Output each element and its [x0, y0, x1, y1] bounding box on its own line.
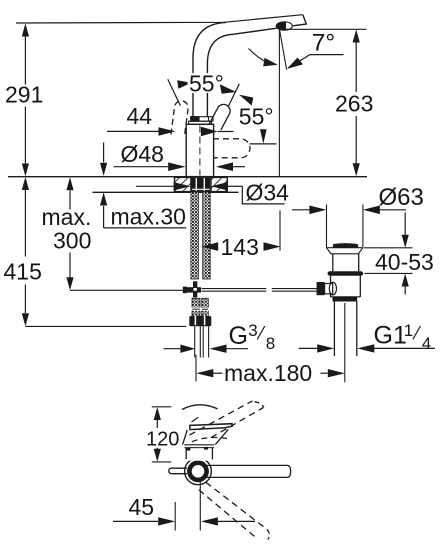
svg-text:40-53: 40-53: [375, 249, 434, 275]
svg-text:44: 44: [127, 103, 153, 129]
svg-text:max.: max.: [42, 204, 92, 230]
svg-text:max.180: max.180: [224, 360, 312, 386]
svg-text:300: 300: [53, 228, 91, 254]
svg-text:Ø48: Ø48: [121, 141, 164, 167]
svg-text:8: 8: [266, 334, 275, 353]
svg-text:45: 45: [129, 494, 155, 520]
svg-text:G: G: [229, 322, 248, 350]
svg-text:7°: 7°: [312, 30, 335, 57]
svg-text:Ø34: Ø34: [246, 180, 290, 206]
svg-text:55°: 55°: [239, 104, 274, 130]
svg-text:263: 263: [335, 91, 373, 117]
svg-text:max.30: max.30: [111, 204, 186, 230]
svg-text:3: 3: [248, 321, 257, 340]
svg-text:Ø63: Ø63: [379, 184, 424, 211]
svg-text:G1: G1: [374, 322, 407, 350]
svg-text:4: 4: [422, 334, 431, 353]
svg-text:415: 415: [4, 259, 42, 285]
svg-text:143: 143: [221, 234, 259, 260]
svg-text:120: 120: [146, 429, 179, 451]
svg-text:1: 1: [404, 321, 413, 340]
svg-text:291: 291: [5, 82, 43, 108]
svg-text:55°: 55°: [189, 71, 224, 97]
